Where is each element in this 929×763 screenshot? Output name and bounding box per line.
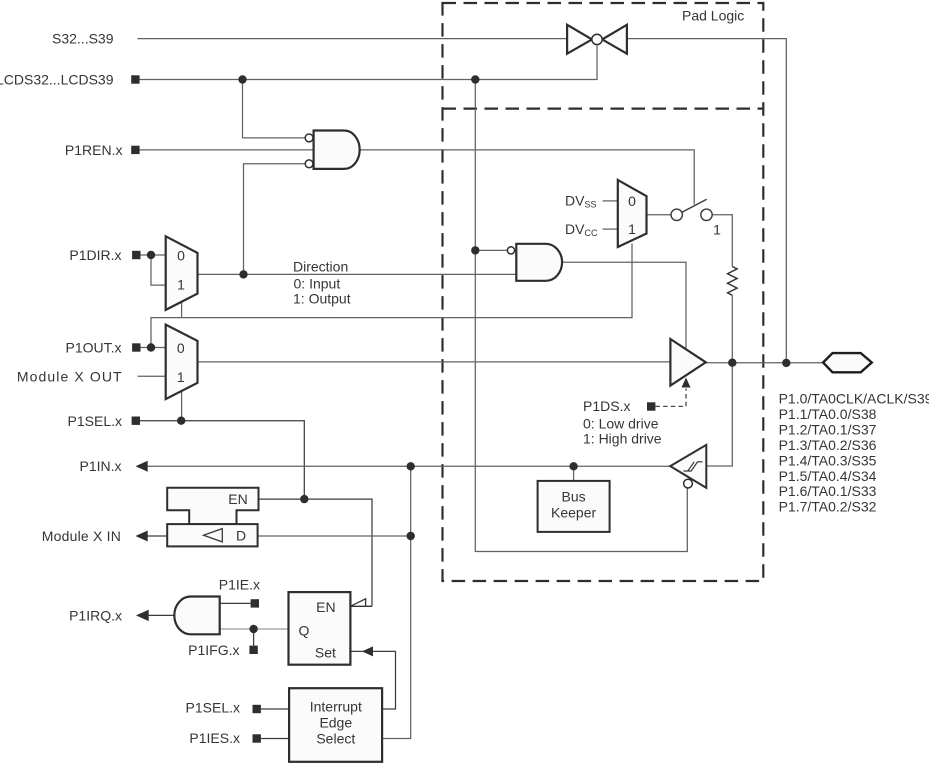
pad logic dashed boundary box: [443, 3, 764, 581]
register tap square P1SEL: [132, 417, 140, 425]
mux M2 (P1OUT output mux): [166, 325, 198, 400]
svg-text:P1.1/TA0.0/S38: P1.1/TA0.0/S38: [779, 406, 877, 422]
wire pad NAND output to driver enable: [562, 262, 686, 349]
resistor R1 (pullup/pulldown): [728, 267, 738, 296]
wire transmission gate output to pad node: [628, 39, 786, 360]
register tap square P1REN: [131, 146, 139, 154]
svg-text:LCDS32...LCDS39: LCDS32...LCDS39: [0, 72, 114, 88]
svg-text:Pad Logic: Pad Logic: [682, 7, 744, 23]
wire P1DIR.x to DIR mux input 0: [140, 254, 166, 256]
wire REN NAND output to switch control: [360, 150, 695, 205]
svg-text:Module X IN: Module X IN: [42, 528, 121, 544]
wire IFG branch: [253, 629, 255, 646]
transmission gate control bubble: [592, 34, 602, 44]
svg-text:EN: EN: [228, 491, 247, 507]
wire D latch output to Module X IN: [146, 535, 167, 537]
svg-text:P1.4/TA0.3/S35: P1.4/TA0.3/S35: [779, 452, 877, 468]
svg-text:P1IES.x: P1IES.x: [189, 730, 240, 746]
wire bus keeper connection: [573, 466, 575, 481]
junction dot P1DIR input: [147, 251, 155, 259]
svg-text:P1.3/TA0.2/S36: P1.3/TA0.2/S36: [779, 437, 877, 453]
register tap square P1DIR: [132, 251, 140, 259]
junction dot Direction line: [239, 270, 247, 278]
svg-text:P1.0/TA0CLK/ACLK/S39: P1.0/TA0CLK/ACLK/S39: [779, 391, 929, 407]
wire interrupt edge select to flip-flop Set: [350, 651, 395, 709]
IRQ AND gate U5 (left facing): [174, 597, 219, 635]
svg-text:Set: Set: [315, 645, 336, 661]
FF1 EN wedge: [350, 599, 372, 607]
arrow P1IN.x output: [136, 461, 148, 472]
svg-text:Module X OUT: Module X OUT: [17, 368, 123, 384]
svg-text:Direction: Direction: [293, 259, 348, 275]
svg-text:1: Output: 1: Output: [293, 291, 351, 307]
register tap square P1IES: [253, 734, 261, 742]
register tap square P1IE: [251, 599, 259, 607]
svg-text:P1IFG.x: P1IFG.x: [188, 642, 239, 658]
svg-text:Select: Select: [316, 731, 355, 747]
svg-text:1: 1: [628, 221, 636, 237]
switch S1 right contact: [701, 209, 712, 220]
svg-text:P1.6/TA0.1/S33: P1.6/TA0.1/S33: [779, 483, 877, 499]
svg-text:1: 1: [177, 276, 185, 292]
pad hexagon P1 pin: [823, 353, 872, 372]
transmission gate (analog switch) left triangle: [567, 25, 592, 54]
NAND gate U2 (pad logic output enable gate): [516, 244, 562, 281]
junction dot P1IN tap: [407, 462, 415, 470]
mux M1 (P1DIR direction mux): [166, 236, 198, 310]
wire S32...S39 to transmission gate: [138, 38, 567, 40]
junction dot S39 return at pad line: [782, 359, 790, 367]
junction dot D latch line: [407, 532, 415, 540]
wire OUT mux output to output driver: [198, 361, 671, 363]
svg-text:EN: EN: [316, 599, 335, 615]
wire LCDS32...LCDS39 to transmission gate control: [140, 46, 598, 80]
register tap square P1SEL lower: [253, 705, 261, 713]
U1 top input bubble: [305, 134, 313, 142]
wire switch to pullup resistor: [712, 215, 732, 267]
wire LCDS branch down to pad NAND and input buffer enable: [475, 80, 687, 552]
register tap square P1DS: [647, 402, 655, 410]
wire P1IES.x to interrupt edge select: [261, 738, 289, 740]
svg-text:P1IRQ.x: P1IRQ.x: [69, 608, 122, 624]
svg-text:Q: Q: [298, 622, 309, 638]
svg-text:0: Input: 0: Input: [294, 276, 341, 292]
wire P1OUT.x to OUT mux input 0: [140, 347, 166, 349]
switch S1 left contact: [671, 209, 682, 220]
register tap square P1OUT: [132, 343, 140, 351]
wire DIR mux select: [181, 302, 183, 318]
svg-text:D: D: [236, 528, 246, 544]
register tap square P1IFG: [249, 646, 257, 654]
D input latch L1 body: [167, 524, 257, 546]
svg-text:P1.2/TA0.1/S37: P1.2/TA0.1/S37: [779, 421, 877, 437]
junction dot EN latch line: [300, 495, 308, 503]
mux M3 (DVss/DVcc pull select mux): [618, 180, 647, 247]
wire DVcc stub: [603, 228, 618, 230]
wire D latch data from P1IN: [258, 535, 411, 537]
wire DVss stub: [603, 200, 618, 202]
NAND gate U1 (P1REN enable gate) body: [314, 131, 360, 169]
svg-text:0: 0: [628, 193, 636, 209]
wire pad to input buffer: [706, 363, 732, 466]
svg-text:P1DS.x: P1DS.x: [583, 398, 630, 414]
junction dot pad NAND input: [471, 246, 479, 254]
svg-text:Edge: Edge: [319, 715, 352, 731]
wire P1DS.x dashed control to driver: [655, 389, 686, 407]
arrow P1DS drive control (up into driver): [682, 378, 691, 388]
wire IRQ AND output to P1IRQ.x: [146, 614, 176, 616]
U1 bottom input bubble: [305, 160, 313, 168]
interrupt flag flip-flop FF1: [289, 592, 351, 665]
svg-text:0: Low drive: 0: Low drive: [583, 415, 659, 431]
wire P1IE.x to IRQ AND gate: [220, 602, 251, 604]
wire P1IN.x from input buffer: [146, 465, 670, 467]
output driver buffer U3: [670, 339, 705, 386]
transmission gate right triangle: [602, 25, 627, 54]
wire pad line to pad: [706, 362, 823, 364]
svg-text:P1.5/TA0.4/S34: P1.5/TA0.4/S34: [779, 468, 877, 484]
wire P1SEL.x to interrupt edge select: [261, 708, 289, 710]
wire P1REN.x to NAND middle input: [140, 149, 314, 151]
input schmitt buffer U4: [670, 445, 706, 488]
wire LCDS branch to REN NAND top input: [243, 80, 305, 138]
EN input latch L1: [167, 488, 258, 524]
wire OUT mux select from P1SEL.x: [181, 391, 183, 421]
junction dot LCDS at x475: [471, 75, 479, 83]
svg-text:S32...S39: S32...S39: [52, 31, 114, 47]
svg-text:P1IE.x: P1IE.x: [219, 577, 260, 593]
register tap square LCDS: [131, 75, 139, 83]
svg-text:P1IN.x: P1IN.x: [79, 458, 121, 474]
svg-text:P1REN.x: P1REN.x: [65, 142, 123, 158]
svg-text:Bus: Bus: [562, 489, 586, 505]
svg-text:P1DIR.x: P1DIR.x: [69, 247, 121, 263]
svg-text:1: High drive: 1: High drive: [583, 431, 662, 447]
svg-text:P1OUT.x: P1OUT.x: [65, 340, 121, 356]
svg-text:P1.7/TA0.2/S32: P1.7/TA0.2/S32: [779, 499, 877, 515]
wire P1IN tap down to interrupt edge select: [382, 466, 411, 738]
wire DV mux output to switch: [647, 214, 672, 216]
bus keeper block B1: [538, 481, 610, 532]
wire Direction to REN NAND bottom input (inverted): [244, 164, 305, 275]
svg-text:0: 0: [177, 248, 185, 264]
svg-text:1: 1: [177, 369, 185, 385]
svg-text:0: 0: [177, 340, 185, 356]
arrow Set input: [362, 646, 373, 656]
junction dot LCDS at x242: [238, 75, 246, 83]
U4 enable bubble: [684, 479, 693, 488]
wire resistor to pad line: [731, 295, 733, 362]
wire LCDS to pad NAND top input: [475, 249, 507, 251]
wire P1OUT.x net to DVss/DVcc mux select: [151, 244, 632, 348]
interrupt edge select block B2: [289, 688, 382, 762]
svg-text:Interrupt: Interrupt: [310, 699, 362, 715]
wire Direction net from DIR mux output to pad NAND input: [198, 273, 517, 275]
wire Q output to IRQ AND gate: [220, 628, 289, 630]
arrow Module X IN output: [136, 531, 148, 542]
inner dashed divider line: [443, 107, 764, 109]
U2 top input bubble: [507, 247, 514, 254]
wire P1DIR.x branch to DIR mux input 1: [151, 255, 166, 285]
junction dot bus keeper tap: [569, 462, 577, 470]
D latch buffer triangle: [204, 529, 223, 542]
U4 schmitt hysteresis symbol: [684, 462, 703, 471]
junction dot P1OUT input: [147, 343, 155, 351]
junction dot P1SEL input: [177, 417, 185, 425]
svg-text:Keeper: Keeper: [551, 505, 596, 521]
arrow P1IRQ.x output: [136, 610, 149, 621]
wire P1SEL.x to EN latch line: [140, 421, 305, 499]
junction dot Q line: [249, 625, 257, 633]
svg-text:1: 1: [713, 222, 721, 238]
junction dot resistor at pad line: [728, 359, 736, 367]
wire EN latch enable to flip-flop EN: [259, 499, 373, 606]
svg-text:P1SEL.x: P1SEL.x: [68, 413, 122, 429]
wire Module X OUT to OUT mux input 1: [138, 375, 166, 377]
svg-text:P1SEL.x: P1SEL.x: [186, 700, 240, 716]
switch S1 arm: [682, 199, 707, 212]
